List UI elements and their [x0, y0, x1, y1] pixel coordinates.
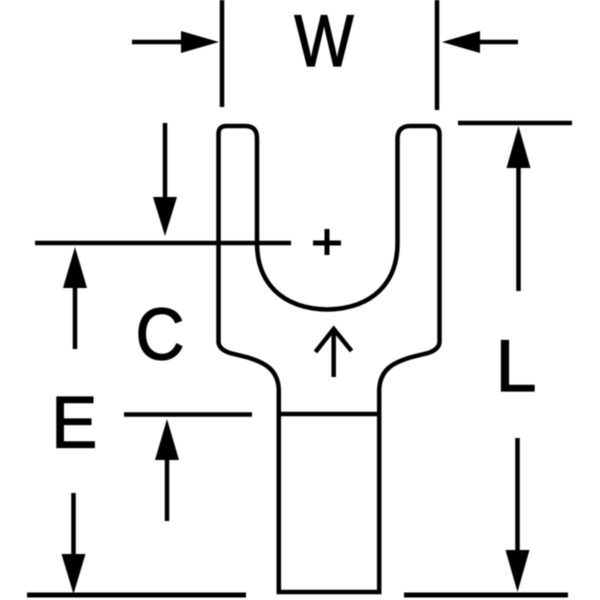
- svg-text:C: C: [135, 293, 184, 375]
- svg-text:W: W: [294, 1, 354, 82]
- svg-text:L: L: [495, 325, 536, 407]
- svg-text:E: E: [51, 383, 97, 464]
